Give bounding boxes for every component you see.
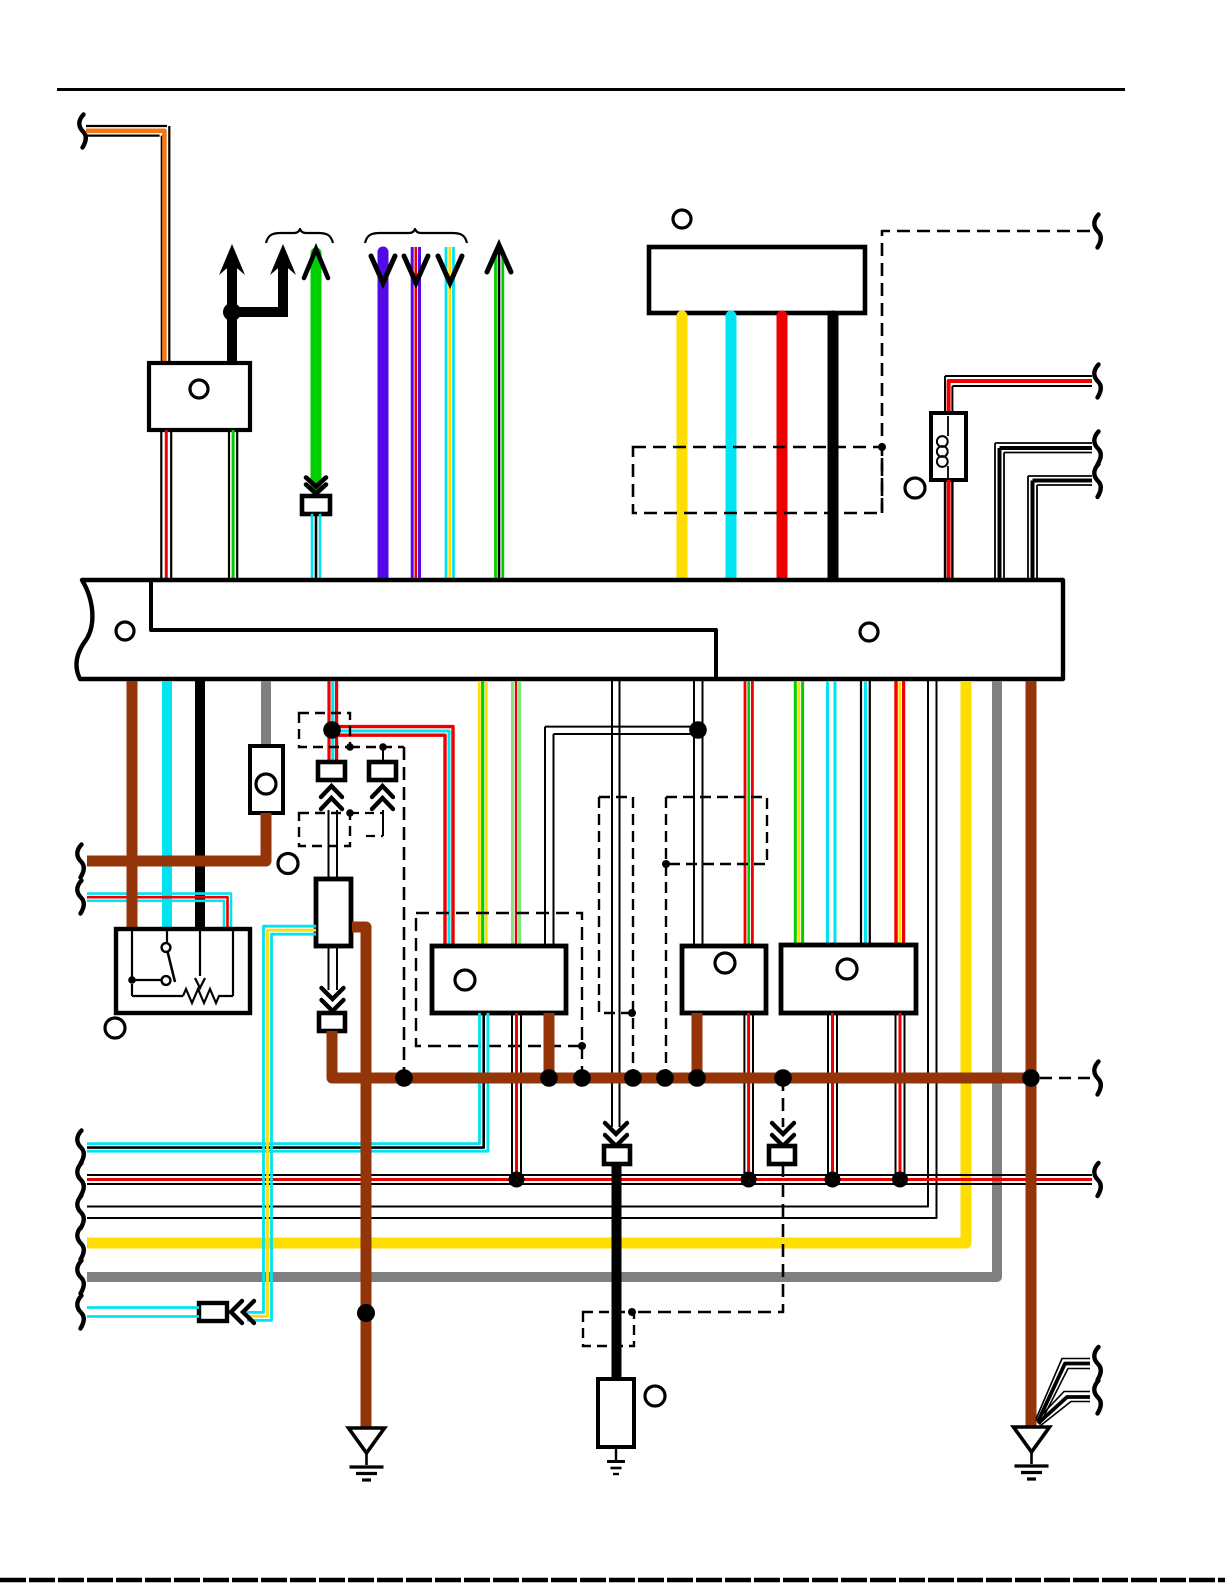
shield dashed link to drain <box>346 743 404 751</box>
wire cyan pair from left break to connector C3 <box>87 1308 199 1317</box>
junction dot shield B <box>624 1069 642 1087</box>
wire orange w/ black outline from left squiggle to connector B1 <box>86 126 169 363</box>
break squiggle right (fan lower) <box>1094 1381 1100 1414</box>
junction dot brown from A/C amp <box>540 1069 558 1087</box>
wire red/cyan/red from bus to junction and connector C1 <box>329 681 337 762</box>
junction dot white/red tee 3 <box>825 1172 841 1188</box>
A/C amplifier box <box>432 946 566 1013</box>
wire white pair 2 bus to thermo amplifier <box>694 681 703 946</box>
junction dot shield drain <box>395 1069 413 1087</box>
wire brown from left break to fuse <box>87 813 266 861</box>
wire white pair condenser to connector C4 <box>329 946 338 990</box>
pin marker circle left of noise filter <box>905 478 925 498</box>
wire white/red from connector B1 to bus <box>161 430 171 578</box>
wire white/red from right break to noise filter <box>945 376 1092 413</box>
wire yellow long horizontal to bus <box>87 681 966 1243</box>
wire white pair 1 bus to connector C5 <box>612 681 620 1127</box>
junction dot shield drop right <box>774 1069 792 1087</box>
shield dashed box around meter wires <box>633 447 882 513</box>
break squiggle left (white pair) <box>77 1196 83 1229</box>
inline connector C3 (box + left chevrons) <box>199 1301 254 1323</box>
wire cyan thick bus to blower switch <box>162 681 172 929</box>
junction dot white/red tee 2 <box>741 1172 757 1188</box>
wire white thin pair horizontals to bus <box>87 681 937 1218</box>
ground bus brown horizontal <box>332 1073 1031 1084</box>
wire cyan/black/cyan below green-wire connector to bus <box>312 514 320 578</box>
shield dashed box C around A/C amplifier <box>416 913 586 1072</box>
inline connector C1 (box + up chevrons) <box>318 762 345 809</box>
wire cyan/yellow/cyan from condenser to radio connector C3 <box>247 926 316 1320</box>
speaker lead lower (white w/ black core) fan <box>1036 1392 1090 1427</box>
arrowhead black up B <box>270 244 296 275</box>
junction dot red/cyan node <box>323 721 341 739</box>
junction dot shield C <box>656 1069 674 1087</box>
break squiggle left (brown feed) <box>77 845 83 878</box>
combination meter block B2 <box>649 247 865 313</box>
pin marker circle above meter block <box>673 210 691 228</box>
wire white/red from heater relay to tee 4 <box>896 1013 905 1179</box>
wire black power feed with junction <box>223 258 288 363</box>
pin marker circle below blower switch <box>105 1018 125 1038</box>
break squiggle right (lead A) <box>1094 432 1100 465</box>
wire white/red long horizontal <box>87 1175 1092 1184</box>
wire black/cyan/black bus to heater relay <box>861 681 870 945</box>
thermo amplifier box <box>682 946 766 1013</box>
shield dashed box around defogger feed <box>583 1312 634 1346</box>
shield dashed drop to connector C6 <box>782 1078 785 1127</box>
wire brown thick bus to body ground <box>1026 681 1037 1428</box>
wire green/yellow/green bus to heater relay <box>795 681 802 945</box>
rear defogger element box <box>598 1379 634 1447</box>
fuse box <box>250 746 283 813</box>
wire white/red from thermo amp to tee 2 <box>744 1013 753 1179</box>
break squiggle right (fan upper) <box>1094 1347 1100 1380</box>
break squiggle left (cyan/red) <box>77 881 83 914</box>
wire palegreen/red/palegreen bus to A/C amplifier <box>512 681 519 946</box>
break squiggle left (gray) <box>77 1261 83 1294</box>
wire brown thick bus to blower switch <box>127 681 138 929</box>
shield drain dashed wire to ground bus <box>403 747 406 1072</box>
shield dashed line from meter to right break <box>878 231 1090 513</box>
junction dot white/red tee 1 <box>509 1172 525 1188</box>
wire white/red from heater relay to tee 3 <box>828 1013 837 1179</box>
wire white/red from A/C amp to tee 1 <box>512 1013 521 1179</box>
inline connector C2 (box + up chevrons) <box>369 747 396 809</box>
bottom page border dashed <box>0 1578 1225 1583</box>
main harness bulkhead connector (bus bar) <box>76 580 1063 679</box>
wire brown from connector C4 to ground bus <box>332 1031 410 1078</box>
wire white w/ black core L-shape B <box>1028 476 1092 578</box>
brace grouping sender wires <box>365 229 467 243</box>
wire white w/ black core L-shape A <box>995 443 1092 578</box>
wire white/green from connector B1 to bus <box>229 430 237 578</box>
break squiggle left (yellow) <box>77 1227 83 1260</box>
wire red thick from meter <box>777 316 788 578</box>
bus pin circle right <box>860 623 878 641</box>
break squiggle right (ground bus) <box>1094 1062 1100 1095</box>
wire cyan pair bus to heater relay <box>828 681 836 945</box>
wire brown from thermo amp to ground bus <box>692 1013 703 1078</box>
wire cyan/black/cyan from A/C amp to left break <box>87 1013 488 1151</box>
ground symbol right (brown) <box>1014 1427 1050 1479</box>
inline connector C6 (down chevrons + box, shield) <box>769 1123 795 1164</box>
junction dot brown thermo amp <box>688 1069 706 1087</box>
noise filter box with coil <box>931 413 966 480</box>
pin marker circle right of brown elbow <box>278 854 298 874</box>
wire gray long horizontal to bus <box>87 681 997 1277</box>
shield dashed box A around white pair 1 <box>599 797 636 1072</box>
pin marker circle right of defogger <box>645 1386 665 1406</box>
inline connector on green wire (double chevron + box) <box>302 478 330 515</box>
bus pin circle left <box>116 622 134 640</box>
break squiggle left (antenna feeder) <box>77 1296 83 1329</box>
connector B1 (2-pin) <box>149 363 250 430</box>
shield dashed box around junction <box>299 713 350 747</box>
defogger ground <box>607 1447 625 1474</box>
wire purple thick with down arrow <box>371 252 395 578</box>
break squiggle right (white/red) <box>1094 1163 1100 1196</box>
blower switch and resistor box <box>116 929 250 1013</box>
speaker lead upper (white w/ black core) fan <box>1036 1359 1090 1425</box>
break squiggle left (white/red) <box>77 1163 83 1196</box>
inline connector C5 (down chevrons + box) <box>604 1123 630 1164</box>
wire red/green/red bus to thermo amplifier <box>745 681 752 946</box>
junction dot shield A <box>573 1069 591 1087</box>
wire brown from condenser to left ground <box>352 927 366 1428</box>
ground symbol left (brown) <box>349 1428 385 1480</box>
wire yellow/green/yellow bus to A/C amplifier <box>479 681 486 946</box>
junction dot brown mid <box>357 1304 375 1322</box>
break squiggle right (meter shield) <box>1094 215 1100 248</box>
wire brown from A/C amp to ground bus <box>544 1013 555 1078</box>
wire black thick C5 to rear defogger <box>612 1164 622 1379</box>
inline connector C4 (down chevrons + box) <box>319 988 345 1031</box>
wire purple/red/purple with down arrow <box>404 247 428 578</box>
heater relay box <box>781 945 916 1013</box>
junction dot white pair node <box>689 721 707 739</box>
break squiggle right (ignition feed) <box>1094 365 1100 398</box>
wire white/red from noise filter to bus <box>945 480 952 578</box>
connector break squiggle left (orange feed) <box>79 115 85 148</box>
wire green thick with up arrow <box>304 249 328 485</box>
brace grouping black/green wires <box>266 229 333 243</box>
shield dashed below C6 elbow to defogger box <box>628 1164 783 1316</box>
condenser box <box>316 879 351 946</box>
top horizontal rule <box>57 88 1125 91</box>
wire white pair elbow from node to A/C amplifier <box>545 727 698 946</box>
wire white pair from connector C1 to condenser <box>329 810 338 879</box>
junction dot white/red tee 4 <box>892 1172 908 1188</box>
wire gray thick bus to fuse <box>261 681 271 746</box>
wire green/black/green with up arrow <box>487 245 511 578</box>
arrowhead black up A <box>219 244 245 275</box>
wire black thick from meter <box>828 316 839 578</box>
shield stub below connector C2 <box>346 809 383 836</box>
wire cyan/red/cyan from left break to blower switch <box>87 894 231 929</box>
shield dashed box lower <box>299 813 350 846</box>
wire red/cyan/red junction elbow down to A/C amplifier <box>332 727 453 946</box>
wire black thick bus to blower switch <box>195 681 205 929</box>
wire cyan thick from meter <box>726 316 737 578</box>
break squiggle right (lead B) <box>1094 464 1100 497</box>
break squiggle left (cyan/black) <box>77 1131 83 1164</box>
shield dashed stub to right break <box>1040 1077 1090 1080</box>
junction dot ground bus right end <box>1022 1069 1040 1087</box>
wire red/yellow/red bus to heater relay <box>896 681 904 945</box>
shield dashed box B around white pair 2 <box>662 797 767 1072</box>
wire yellow thick from meter <box>677 316 688 578</box>
wire cyan/yellow/cyan with down arrow <box>438 247 462 578</box>
